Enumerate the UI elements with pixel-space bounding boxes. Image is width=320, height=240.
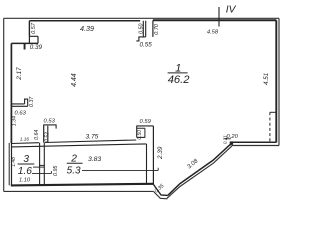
svg-text:0.52: 0.52 (44, 132, 50, 142)
arrowhead of 0.20 leader (224, 138, 227, 140)
room2 right wall right line (152, 126, 154, 185)
svg-text:4.51: 4.51 (263, 73, 270, 85)
wire outer chamfer (153, 191, 167, 198)
section IV tick (218, 7, 220, 27)
rooms divider wall right line (43, 143, 45, 185)
wall below shaft (11, 42, 38, 44)
right duct inner box (137, 128, 145, 137)
shaft box top-left corner (29, 36, 38, 43)
partition lower line (12, 144, 147, 147)
svg-text:0.71: 0.71 (222, 135, 227, 144)
partition upper line (12, 140, 136, 144)
wall left room3 outer line (8, 143, 10, 185)
wall right inner face (275, 20, 277, 142)
wall top inner right segment (153, 19, 277, 21)
wire outer right wall face (278, 18, 280, 145)
wall chamfer inner face (154, 185, 168, 196)
svg-text:0.55: 0.55 (139, 42, 152, 49)
left duct wall vertical (43, 125, 45, 143)
rooms divider bridge (40, 164, 45, 166)
svg-text:0.63: 0.63 (15, 110, 27, 116)
right duct bottom (137, 136, 146, 138)
entry door wall end (152, 20, 154, 37)
svg-text:3.83: 3.83 (88, 156, 101, 163)
left duct end tick (55, 125, 57, 129)
room2 right wall left line (146, 144, 148, 184)
svg-text:1.48: 1.48 (11, 157, 17, 167)
svg-text:0.53: 0.53 (44, 118, 56, 124)
left duct inner vertical (47, 126, 49, 143)
wall diagonal inner face (168, 144, 231, 195)
svg-text:0.57: 0.57 (31, 22, 37, 34)
svg-text:5.3: 5.3 (67, 166, 81, 177)
svg-text:0.95: 0.95 (53, 166, 59, 176)
wire outer SE wall bottom face (232, 145, 279, 147)
wall left inner face (10, 43, 12, 143)
room 2 underline (67, 162, 83, 164)
dashed balcony line (269, 112, 271, 142)
dashed balcony line connector (270, 111, 277, 113)
svg-text:0.59: 0.59 (140, 119, 152, 125)
svg-text:2.17: 2.17 (16, 67, 23, 81)
svg-text:IV: IV (226, 5, 237, 16)
wall SE corner notch (230, 142, 232, 145)
left niche stub double line (12, 104, 28, 106)
entry door stub double line (143, 21, 145, 37)
wall top inner left segment (29, 20, 140, 22)
leader line from 1.6 (33, 166, 44, 168)
wall vertical at shaft 0.57 (28, 21, 30, 37)
leader line from 5.3 (82, 168, 158, 171)
svg-text:46.2: 46.2 (168, 74, 191, 86)
svg-text:4.58: 4.58 (207, 29, 219, 35)
wall left room3 inner line (11, 143, 13, 185)
wire outer diagonal wall face (167, 146, 232, 198)
room 3 underline (18, 163, 35, 165)
right duct top (136, 125, 153, 127)
svg-text:4.44: 4.44 (71, 73, 78, 87)
wire outer bottom wall face (4, 190, 154, 192)
svg-text:1.16: 1.16 (20, 136, 30, 142)
left duct top (44, 124, 57, 126)
svg-text:0.20: 0.20 (227, 134, 239, 140)
wall SE horizontal inner face (231, 141, 276, 143)
svg-text:1.10: 1.10 (19, 177, 31, 183)
svg-text:3.75: 3.75 (85, 133, 98, 140)
svg-text:0.37: 0.37 (29, 96, 35, 107)
left niche hook 0.37 (25, 99, 28, 106)
entry door jamb L (136, 37, 145, 41)
svg-text:0.64: 0.64 (34, 130, 40, 140)
svg-text:1.6: 1.6 (18, 166, 32, 177)
leader line 1.10 with tick (32, 171, 51, 173)
room 1 underline (168, 72, 188, 74)
right duct left vertical (136, 126, 138, 137)
svg-text:1.34: 1.34 (11, 116, 17, 126)
wire outer top wall face (4, 17, 279, 19)
svg-text:3: 3 (23, 154, 29, 165)
svg-text:0.39: 0.39 (30, 44, 43, 51)
leader arrow 0.20 (224, 138, 231, 140)
svg-text:0.50: 0.50 (137, 130, 143, 140)
svg-text:0.70: 0.70 (154, 23, 160, 35)
rooms divider wall left line (39, 143, 41, 185)
wire outer left wall face (3, 18, 5, 191)
wall bottom inner face (11, 184, 154, 186)
SE corner junction blob (230, 141, 233, 144)
svg-text:2.39: 2.39 (157, 146, 164, 160)
svg-text:4.39: 4.39 (80, 24, 94, 33)
door tick filled below shaft (24, 44, 26, 50)
svg-text:0.50: 0.50 (139, 23, 145, 33)
